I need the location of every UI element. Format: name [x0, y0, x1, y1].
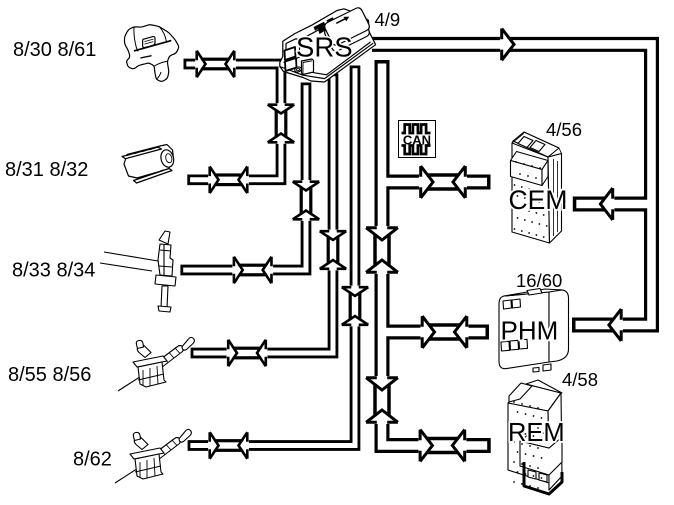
svg-text:16/60: 16/60	[516, 270, 562, 291]
svg-text:8/31 8/32: 8/31 8/32	[5, 159, 88, 181]
svg-text:4/58: 4/58	[562, 369, 598, 390]
svg-text:8/55 8/56: 8/55 8/56	[8, 364, 91, 386]
svg-text:4/9: 4/9	[375, 9, 401, 30]
svg-text:SRS: SRS	[296, 32, 353, 63]
svg-text:CAN: CAN	[403, 133, 431, 148]
svg-text:4/56: 4/56	[546, 119, 582, 140]
svg-text:REM: REM	[508, 419, 565, 447]
svg-text:CEM: CEM	[509, 185, 568, 215]
svg-text:PHM: PHM	[501, 316, 559, 346]
svg-text:8/33 8/34: 8/33 8/34	[12, 260, 95, 282]
svg-text:8/30 8/61: 8/30 8/61	[13, 39, 96, 61]
svg-text:8/62: 8/62	[73, 449, 112, 471]
